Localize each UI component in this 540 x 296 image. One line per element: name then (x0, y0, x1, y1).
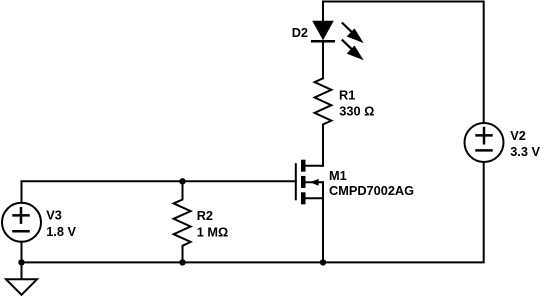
svg-text:R2: R2 (197, 208, 213, 223)
svg-text:V3: V3 (46, 208, 62, 223)
svg-text:D2: D2 (292, 25, 308, 40)
svg-text:V2: V2 (510, 128, 526, 143)
svg-text:M1: M1 (329, 168, 347, 183)
svg-text:330 Ω: 330 Ω (339, 104, 374, 119)
svg-text:3.3 V: 3.3 V (510, 144, 540, 159)
svg-text:1.8 V: 1.8 V (46, 224, 76, 239)
svg-text:1 MΩ: 1 MΩ (197, 224, 228, 239)
svg-text:CMPD7002AG: CMPD7002AG (329, 183, 414, 198)
svg-text:R1: R1 (339, 87, 355, 102)
